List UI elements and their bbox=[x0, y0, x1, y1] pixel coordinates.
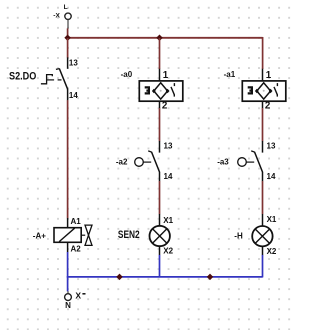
svg-text:-a2: -a2 bbox=[116, 157, 128, 166]
svg-text:SEN2: SEN2 bbox=[118, 229, 140, 241]
wire L down to top bus bbox=[67, 28, 69, 38]
svg-text:-X: -X bbox=[53, 13, 60, 20]
terminal X- N (bottom) bbox=[65, 291, 86, 310]
svg-text:A2: A2 bbox=[71, 244, 82, 253]
wire a0 to contact a2 bbox=[159, 108, 161, 141]
lamp SEN2 (X1-X2) bbox=[118, 214, 174, 256]
svg-text:14: 14 bbox=[69, 91, 78, 100]
svg-text:S2.DO: S2.DO bbox=[9, 71, 37, 83]
wire bus down to terminal N bbox=[67, 277, 69, 292]
svg-text:2: 2 bbox=[162, 100, 168, 111]
svg-text:14: 14 bbox=[164, 172, 173, 181]
wire lamp H to bottom bus (blue) bbox=[262, 255, 264, 278]
svg-text:A1: A1 bbox=[71, 217, 82, 226]
node junction bottom-left bbox=[116, 274, 123, 281]
wire a1 to contact a3 bbox=[262, 108, 264, 141]
node junction top-middle bbox=[156, 35, 163, 42]
terminal -X L (top) bbox=[53, 4, 71, 28]
svg-text:-a0: -a0 bbox=[121, 70, 133, 79]
svg-text:-A+: -A+ bbox=[33, 231, 46, 240]
svg-text:L: L bbox=[64, 4, 68, 11]
proximity sensor -a0 (pins 1-2) bbox=[121, 69, 183, 112]
svg-text:X2: X2 bbox=[267, 247, 277, 256]
node junction top-left bbox=[64, 35, 71, 42]
svg-text:14: 14 bbox=[267, 172, 276, 181]
svg-text:1: 1 bbox=[163, 70, 169, 81]
svg-text:X1: X1 bbox=[163, 216, 173, 225]
svg-text:1: 1 bbox=[266, 70, 272, 81]
svg-text:13: 13 bbox=[69, 59, 78, 68]
node junction bottom-right bbox=[207, 274, 214, 281]
svg-text:-a1: -a1 bbox=[224, 70, 236, 79]
wire S2 to coil A1 bbox=[67, 100, 69, 218]
svg-text:X2: X2 bbox=[163, 247, 173, 256]
svg-text:13: 13 bbox=[267, 141, 276, 150]
svg-text:13: 13 bbox=[164, 141, 173, 150]
wire SEN2 to bottom bus (blue) bbox=[159, 255, 161, 277]
wire bottom bus bbox=[67, 276, 263, 278]
wire a3 to lamp H bbox=[262, 181, 264, 214]
limit contact -a3 (13-14) bbox=[217, 141, 276, 181]
solenoid coil -A+ (A1-A2) bbox=[33, 217, 92, 253]
limit contact -a2 (13-14) bbox=[116, 141, 173, 181]
wire a2 to lamp SEN2 bbox=[159, 181, 161, 214]
svg-text:2: 2 bbox=[265, 100, 271, 111]
proximity sensor -a1 (pins 1-2) bbox=[224, 69, 286, 112]
wire top bus corner down to sensor a1 bbox=[262, 37, 264, 69]
svg-text:X: X bbox=[75, 291, 81, 301]
wire coil A2 to bottom bus (blue) bbox=[67, 252, 69, 277]
switch S2.DO (NO contact 13-14) bbox=[9, 57, 78, 100]
wire bus to S2 contact bbox=[67, 38, 69, 58]
lamp -H (X1-X2) bbox=[234, 214, 277, 256]
svg-text:N: N bbox=[65, 301, 71, 310]
svg-text:-H: -H bbox=[234, 231, 243, 240]
svg-text:-a3: -a3 bbox=[217, 157, 229, 166]
wire top bus bbox=[68, 37, 263, 39]
svg-text:X1: X1 bbox=[267, 215, 277, 224]
wire top bus to sensor a0 bbox=[159, 38, 161, 69]
